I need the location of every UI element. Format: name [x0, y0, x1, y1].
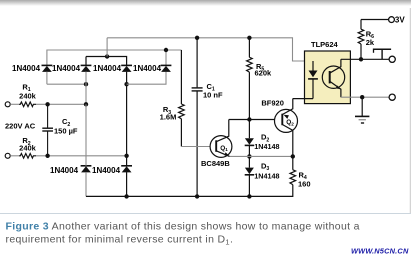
wire middle node: [230, 155, 293, 157]
resistor R1: [19, 102, 36, 107]
wire positive-b (D1/D4 cathodes to R3): [47, 50, 182, 65]
wire Q1 collector to base Q2: [229, 119, 275, 121]
right border: [409, 8, 411, 213]
pushbutton S1: [374, 49, 392, 60]
node top rail R5: [247, 36, 251, 40]
wire cathode d2-d3: [86, 57, 127, 66]
node: [84, 82, 88, 86]
resistor R4: [290, 156, 311, 190]
node rail d6: [124, 194, 128, 198]
resistor R6: [358, 20, 375, 60]
svg-text:240k: 240k: [19, 91, 37, 100]
svg-text:1N4004: 1N4004: [52, 64, 81, 73]
resistor R2: [19, 154, 36, 159]
phototransistor in opto: [322, 59, 344, 97]
svg-text:1N4004: 1N4004: [133, 64, 162, 73]
terminal input top: [5, 102, 10, 107]
node riser: [105, 54, 109, 58]
svg-text:1N4148: 1N4148: [254, 171, 279, 180]
wire: [36, 103, 86, 105]
node ground: [360, 95, 364, 99]
capacitor C1: [192, 38, 223, 197]
terminal output bottom: [389, 94, 395, 100]
wire LED cathode to Q2 collector: [293, 98, 313, 100]
svg-text:BC849B: BC849B: [201, 159, 230, 168]
diode D 1N4004 a: [12, 64, 52, 84]
transistor Q2 BF920: [261, 98, 297, 156]
node middle D2: [247, 154, 251, 158]
diode D 1N4004 f: [92, 156, 132, 197]
svg-text:1N4004: 1N4004: [50, 166, 79, 175]
svg-text:3V: 3V: [395, 16, 405, 25]
node AC2 bridge: [124, 154, 128, 158]
diode D3 1N4148: [245, 156, 280, 196]
svg-text:1N4004: 1N4004: [92, 166, 121, 175]
diode D 1N4004 e: [50, 104, 91, 196]
wire: [10, 155, 19, 157]
terminal 3V: [389, 17, 395, 23]
diode D 1N4004 d: [133, 50, 171, 73]
wire opto emitter: [341, 96, 389, 98]
diode D 1N4004 b: [52, 57, 91, 105]
node D2 top: [247, 117, 251, 121]
svg-text:620k: 620k: [255, 68, 273, 77]
wire base Q1: [181, 146, 210, 148]
wire: [10, 103, 19, 105]
node anodes d3-d4: [124, 82, 128, 86]
svg-text:220V AC: 220V AC: [5, 122, 36, 131]
node top rail C1: [195, 36, 199, 40]
resistor R5: [247, 38, 272, 120]
svg-text:160: 160: [298, 179, 311, 188]
node rail C1: [195, 194, 199, 198]
wire AC2: [36, 155, 127, 157]
resistor R3: [160, 50, 185, 147]
terminal input bottom: [5, 153, 10, 158]
node AC1: [84, 102, 88, 106]
diode D 1N4004 c: [93, 64, 132, 156]
svg-text:1.6M: 1.6M: [160, 113, 177, 122]
svg-text:240k: 240k: [19, 143, 37, 152]
svg-text:10 nF: 10 nF: [203, 91, 223, 100]
wire anode d4: [127, 72, 166, 85]
svg-text:1N4004: 1N4004: [93, 64, 122, 73]
optocoupler U1 TLP624: [305, 40, 351, 104]
svg-text:TLP624: TLP624: [311, 40, 339, 49]
svg-text:WWW.N5CN.CN: WWW.N5CN.CN: [351, 247, 409, 256]
wire opto collector: [341, 58, 389, 60]
svg-text:Figure 3 Another variant of th: Figure 3 Another variant of this design …: [6, 221, 360, 233]
svg-text:requirement for minimal revers: requirement for minimal reverse current …: [6, 234, 234, 247]
node rail D3: [247, 194, 251, 198]
transistor Q1 BC849B: [201, 120, 232, 169]
svg-text:1N4148: 1N4148: [254, 142, 279, 151]
diode D2 1N4148: [245, 120, 280, 157]
terminal output top: [389, 56, 395, 62]
wire 3V: [361, 19, 389, 21]
svg-text:150 µF: 150 µF: [54, 126, 78, 135]
LED in opto: [308, 61, 318, 99]
wire bottom rail: [86, 191, 293, 197]
ground: [355, 97, 369, 123]
wire top rail: [107, 38, 313, 61]
wire anode d1-d2: [47, 83, 86, 85]
svg-text:1N4004: 1N4004: [12, 64, 41, 73]
node AC1-C2: [45, 102, 49, 106]
node AC2-C2: [45, 154, 49, 158]
node middle right: [291, 154, 295, 158]
node R6 bottom: [359, 57, 363, 61]
divider: [0, 213, 411, 215]
node d4 top: [164, 48, 168, 52]
svg-text:BF920: BF920: [261, 98, 284, 107]
capacitor C2: [42, 104, 78, 156]
wire riser to top rail: [106, 38, 108, 57]
svg-text:2k: 2k: [366, 38, 375, 47]
